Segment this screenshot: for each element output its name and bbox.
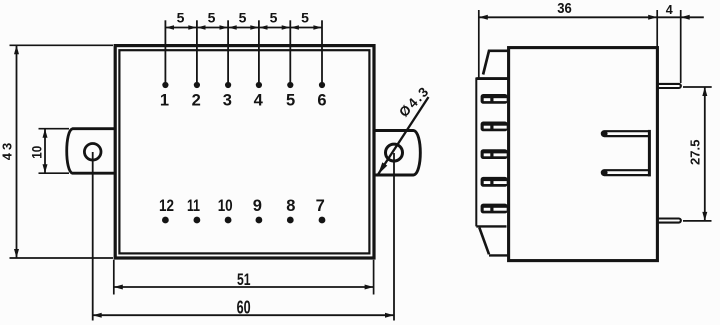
side strip left edge [475, 78, 477, 227]
pin 3 pad [225, 82, 231, 88]
svg-text:36: 36 [557, 0, 572, 17]
svg-text:27.5: 27.5 [687, 140, 702, 166]
left tab hole [84, 144, 101, 161]
top dimension line [479, 16, 704, 18]
pin 5 pad [287, 82, 293, 88]
pin pitch dimension line [165, 27, 322, 29]
side bottom chamfer [479, 228, 489, 255]
svg-text:4: 4 [254, 92, 264, 110]
svg-text:1: 1 [160, 92, 169, 110]
pin 3 lead line [227, 20, 229, 82]
side bottom flange line [489, 254, 509, 256]
svg-text:6: 6 [317, 92, 326, 110]
fork slot right bar [648, 130, 651, 177]
43 dimension line [16, 45, 18, 258]
body inner outline [119, 50, 369, 253]
right mounting tab [374, 131, 420, 176]
pin 6 pad [319, 82, 325, 88]
pitch arrows segment 2 [197, 25, 206, 30]
fork slot bottom prong [602, 170, 650, 175]
svg-text:5: 5 [239, 10, 247, 26]
right hole centerline [393, 153, 395, 321]
pin 10 pad [225, 217, 232, 224]
svg-text:5: 5 [208, 10, 216, 26]
36 right extension line [656, 10, 658, 47]
pin 1 lead line [164, 20, 166, 82]
pin 8 pad [287, 217, 294, 224]
svg-text:4: 4 [666, 3, 673, 17]
right tab hole [386, 144, 403, 161]
pin 4 pad [256, 82, 262, 88]
svg-text:5: 5 [270, 10, 278, 26]
pin 11 pad [194, 217, 201, 224]
fork slot top prong [602, 131, 650, 136]
27.5 dimension line [704, 87, 706, 221]
pitch arrows segment 4 [259, 25, 268, 30]
10 bottom extension line [39, 172, 70, 174]
svg-text:43: 43 [0, 143, 15, 161]
side pin 4 [481, 177, 508, 187]
pin 9 pad [256, 217, 263, 224]
side top pin [657, 84, 681, 88]
pin 6 lead line [321, 20, 323, 82]
left hole centerline [92, 152, 94, 321]
left mounting tab [67, 129, 115, 174]
pin 12 pad [162, 217, 169, 224]
pin 4 lead line [258, 20, 260, 82]
svg-text:3: 3 [223, 92, 232, 110]
svg-text:8: 8 [286, 197, 295, 215]
pitch arrows segment 5 [290, 25, 299, 30]
side pin 5 [481, 204, 508, 214]
side bottom strip line [476, 225, 506, 227]
pin 5 lead line [289, 20, 291, 82]
svg-text:51: 51 [237, 270, 251, 289]
36 left extension line [478, 10, 480, 78]
side shoulder line [476, 77, 509, 80]
51 dimension line [114, 286, 374, 288]
pitch arrows segment 3 [228, 25, 237, 30]
svg-text:7: 7 [316, 197, 325, 215]
svg-text:12: 12 [159, 197, 174, 215]
10 dimension line [44, 129, 46, 174]
svg-text:10: 10 [30, 146, 45, 159]
hole diameter leader [377, 97, 429, 176]
svg-text:9: 9 [253, 197, 262, 215]
51 right extension line [373, 260, 375, 295]
side view body outline [509, 48, 658, 261]
43 top extension line [10, 44, 114, 46]
51 left extension line [113, 260, 115, 295]
27.5 bottom extension line [683, 220, 712, 222]
pin 2 pad [194, 82, 200, 88]
side pin 3 [481, 149, 508, 159]
fork slot top prong tip [602, 131, 607, 136]
svg-text:5: 5 [301, 10, 309, 26]
side bottom pin [657, 219, 681, 223]
side pin 2 [481, 122, 508, 132]
pitch arrows segment 1 [165, 25, 322, 30]
pin 1 pad [162, 82, 168, 88]
27.5 top extension line [683, 86, 712, 88]
4 extension line [680, 10, 682, 83]
pin 7 pad [319, 217, 326, 224]
svg-text:5: 5 [286, 92, 295, 110]
10 top extension line [39, 128, 70, 130]
svg-text:2: 2 [192, 92, 201, 110]
side top flange [483, 51, 509, 75]
fork slot bottom prong tip [602, 170, 607, 175]
svg-text:11: 11 [187, 197, 200, 215]
43 bottom extension line [10, 257, 114, 259]
svg-text:10: 10 [218, 197, 233, 215]
body outer outline [115, 46, 374, 258]
60 dimension line [93, 314, 394, 316]
side pin 1 [481, 94, 508, 104]
svg-text:60: 60 [237, 297, 251, 317]
pin 2 lead line [196, 20, 198, 82]
svg-text:5: 5 [177, 10, 185, 26]
